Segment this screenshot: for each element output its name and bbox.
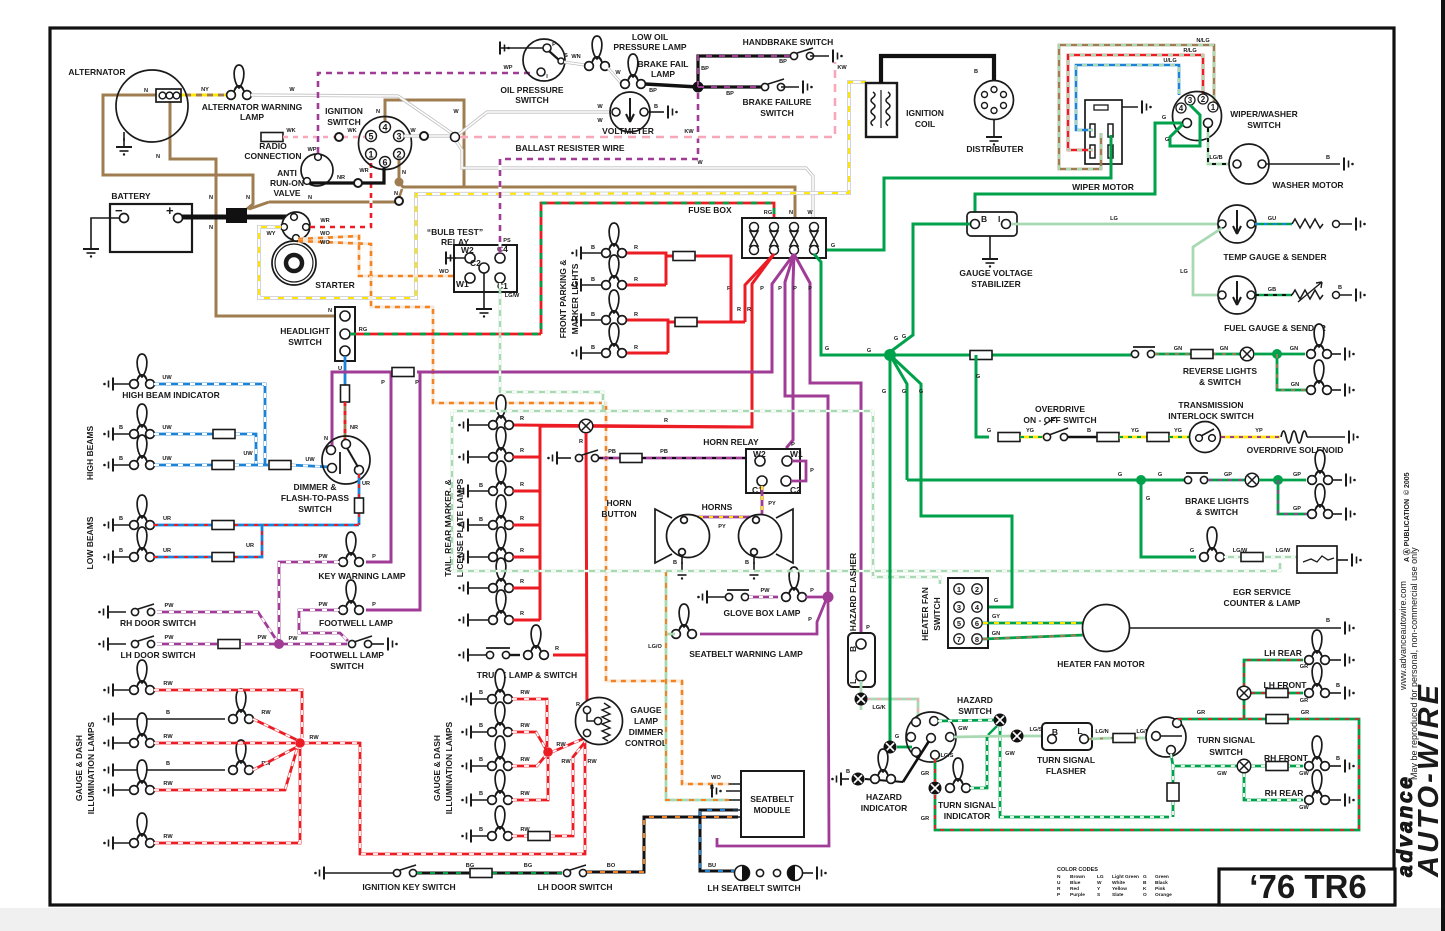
ground alternator [123,132,125,141]
turn signal switch [1146,717,1186,757]
svg-text:W: W [410,128,416,134]
lamp gauge illum right 2 [461,726,471,739]
svg-text:IGNITION: IGNITION [325,106,363,116]
svg-text:BALLAST RESISTER WIRE: BALLAST RESISTER WIRE [515,143,624,153]
svg-text:SWITCH: SWITCH [760,108,794,118]
svg-text:PW: PW [164,603,174,609]
svg-text:HANDBRAKE SWITCH: HANDBRAKE SWITCH [743,37,834,47]
bulb test relay [454,245,517,292]
LH door switch [98,638,108,651]
RH front lamp [1305,736,1330,770]
svg-text:N: N [324,436,328,442]
svg-text:LG/W: LG/W [1233,548,1248,554]
svg-text:RW: RW [556,742,566,748]
svg-text:R: R [634,312,638,318]
wire R front parking bus 1-2 [627,253,673,285]
wire B black lamp to BP junction [645,84,698,87]
wire GU temp to sender [1255,223,1292,226]
svg-text:2: 2 [975,585,979,594]
svg-text:UW: UW [243,451,253,457]
svg-text:6: 6 [382,158,387,168]
wire GW hazard to xf [938,720,994,721]
lamp tail 3 [458,461,524,498]
svg-text:TURN SIGNAL: TURN SIGNAL [1197,735,1255,745]
svg-text:W: W [1097,880,1102,886]
svg-text:HIGH BEAM INDICATOR: HIGH BEAM INDICATOR [122,390,219,400]
wire LG/K flasher to hazard switch [861,681,918,717]
wire LG/O [666,571,729,800]
svg-text:G: G [894,336,898,342]
lamp front parking 4 [571,347,581,360]
svg-text:VOLTMETER: VOLTMETER [602,126,654,136]
lamp tail 6 [458,558,524,595]
svg-text:G: G [1190,548,1194,554]
svg-text:LAMP: LAMP [240,112,264,122]
svg-text:RG: RG [764,210,772,216]
svg-text:ANTI: ANTI [277,168,297,178]
oil pressure switch [523,39,565,81]
wire RW left group net [154,690,585,854]
node G junction [884,349,896,361]
svg-text:UR: UR [163,516,171,522]
wire P purple fan P2 to glove box / seatbelt [785,254,828,594]
wire W ignition pin3 [404,134,450,137]
svg-text:INDICATOR: INDICATOR [861,803,907,813]
transmission interlock switch [1190,422,1221,453]
wire G green fuse to wiper motor [819,135,1111,250]
svg-text:B: B [1143,880,1147,886]
svg-text:R: R [555,646,559,652]
svg-text:WO: WO [711,775,721,781]
svg-text:R: R [664,418,668,424]
battery [110,204,192,252]
svg-text:PS: PS [503,238,511,244]
svg-text:K: K [1143,886,1147,892]
svg-text:KEY WARNING LAMP: KEY WARNING LAMP [318,571,406,581]
page right edge line [1441,0,1445,931]
svg-text:PW: PW [288,636,298,642]
wire RG red/green dashed headlight to fuse [350,203,774,334]
heater fan motor [1083,605,1130,652]
svg-text:W: W [807,210,813,216]
wire GR TS switch to LH lamps [1178,660,1303,719]
svg-text:INDICATOR: INDICATOR [944,811,990,821]
svg-text:R: R [520,579,524,585]
svg-text:P: P [372,602,376,608]
svg-text:STARTER: STARTER [315,280,355,290]
svg-text:RH REAR: RH REAR [1265,788,1304,798]
svg-text:WP: WP [307,147,316,153]
svg-text:3: 3 [1188,96,1193,105]
lamp gauge illum right 4 [461,794,471,807]
svg-text:B: B [166,761,170,767]
svg-text:RW: RW [520,791,530,797]
node P junction glove [806,596,828,599]
wiper motor plug [1085,100,1122,164]
svg-text:UW: UW [162,456,172,462]
LH seatbelt switch [735,866,827,881]
svg-text:BUTTON: BUTTON [601,509,636,519]
svg-text:B: B [119,516,123,522]
brake lights & switch [907,479,1184,482]
wire LG to fuel gauge [1193,228,1222,295]
svg-text:KW: KW [684,129,694,135]
ignition switch [359,117,412,170]
svg-text:G: G [987,428,991,434]
svg-text:UW: UW [162,375,172,381]
svg-text:P: P [791,442,795,448]
lamp seatbelt warning [672,604,697,638]
svg-text:CONTROL: CONTROL [625,738,667,748]
svg-text:RW: RW [587,759,597,765]
svg-text:W: W [697,160,703,166]
svg-text:TRUNK LAMP & SWITCH: TRUNK LAMP & SWITCH [477,670,577,680]
svg-text:B: B [591,312,595,318]
gauge voltage stabilizer [967,212,1017,236]
lamp alternator warning [227,65,252,99]
wire W warning lamp to fuse [251,95,813,218]
svg-text:MODULE: MODULE [754,805,791,815]
lamp front parking 3 [571,314,581,327]
wire N brown ignition to fuse box [399,155,795,222]
wire LG/S hazard to flasher [954,736,1045,737]
lamp brake fail [621,54,646,88]
crossed lamp on R line [579,419,593,433]
turn signal indicator [929,782,942,795]
svg-text:& SWITCH: & SWITCH [1199,377,1241,387]
svg-text:B: B [479,723,483,729]
handbrake switch [790,48,813,60]
wire LG stabilizer to temp gauge [1011,223,1218,226]
svg-text:P: P [760,286,764,292]
wire R/LG wiper loop [1068,55,1203,150]
svg-text:FRONT PARKING &: FRONT PARKING & [558,260,568,339]
svg-text:B: B [166,710,170,716]
overdrive circuit [976,355,989,437]
lamp tail 5 [458,527,524,564]
wire GN to second reverse lamp [1277,354,1307,390]
wire G wiper switch to stabilizer [975,123,1182,218]
svg-text:BATTERY: BATTERY [111,191,151,201]
svg-text:GW: GW [1217,771,1227,777]
wire BG black/green [417,872,562,875]
connector blob [226,208,247,223]
svg-text:PW: PW [164,635,174,641]
row3 lamp [103,737,113,750]
svg-text:“BULB TEST”: “BULB TEST” [427,227,483,237]
wire N brown stub connector [399,189,402,198]
title block '76 TR6 [1219,868,1395,905]
node BP junction [693,82,704,93]
lamp gauge illum right 3 [461,760,471,773]
svg-text:GLOVE BOX LAMP: GLOVE BOX LAMP [724,608,801,618]
wire GW TS switch to RH lamps [1171,754,1303,817]
RH rear lamp [1305,770,1330,804]
svg-text:PW: PW [760,588,770,594]
svg-text:B: B [654,104,658,110]
svg-text:White: White [1112,880,1125,886]
svg-text:ALTERNATOR WARNING: ALTERNATOR WARNING [202,102,303,112]
svg-text:1: 1 [368,150,373,160]
fuel gauge [1218,276,1256,314]
wire KW pink dashed ballast [460,62,835,137]
svg-text:PRESSURE LAMP: PRESSURE LAMP [613,42,687,52]
LH front lamp [1305,663,1330,697]
svg-text:TRANSMISSION: TRANSMISSION [1178,400,1243,410]
svg-text:UR: UR [163,548,171,554]
svg-text:W: W [597,104,603,110]
svg-text:BRAKE FAIL: BRAKE FAIL [638,59,689,69]
svg-text:C1: C1 [497,281,508,291]
svg-text:P: P [808,617,812,623]
svg-text:WR: WR [320,218,329,224]
svg-text:GN: GN [1290,346,1298,352]
svg-text:B: B [1326,618,1330,624]
wire BU black/blue [700,810,738,871]
svg-text:BP: BP [779,59,787,65]
wire BP to brake failure switch [698,85,762,88]
svg-text:B: B [1336,756,1340,762]
svg-text:LH DOOR SWITCH: LH DOOR SWITCH [537,882,612,892]
svg-text:B: B [479,757,483,763]
svg-text:LG/N: LG/N [1095,729,1108,735]
temp gauge [1218,205,1256,243]
svg-text:‘76 TR6: ‘76 TR6 [1249,868,1366,905]
svg-text:C2: C2 [470,258,481,268]
svg-text:LG/W: LG/W [1276,548,1291,554]
svg-text:RW: RW [163,781,173,787]
svg-text:LG/W: LG/W [505,293,520,299]
fuse box [742,218,826,258]
svg-text:Blue: Blue [1070,880,1081,886]
horn RH [739,509,794,563]
svg-text:SEATBELT: SEATBELT [750,794,794,804]
svg-text:KW: KW [837,65,847,71]
svg-text:YG: YG [1131,428,1139,434]
wire GR hazard to indicator to rear loop [935,719,1359,830]
svg-text:G: G [1118,472,1122,478]
wire N brown alternator loop [103,95,253,209]
wire GW indicator join [970,737,987,788]
svg-text:GW: GW [1299,805,1309,811]
svg-text:HEADLIGHT: HEADLIGHT [280,326,330,336]
svg-text:Orange: Orange [1155,892,1172,898]
wire G junction verticals [890,355,1012,741]
svg-text:P: P [415,380,419,386]
LH rear lamp [1305,630,1330,664]
right banner: advance AUTO-WIRE logo [1394,683,1445,878]
svg-text:2: 2 [396,150,401,160]
svg-text:SEATBELT WARNING LAMP: SEATBELT WARNING LAMP [689,649,803,659]
svg-text:May be reproduced for personal: May be reproduced for personal, non-comm… [1409,547,1419,780]
svg-text:COIL: COIL [915,119,935,129]
svg-text:NR: NR [337,175,345,181]
svg-text:RG: RG [359,327,367,333]
wire W between lamps [608,68,621,83]
svg-text:R: R [520,548,524,554]
lamp low beam 1 [103,519,113,532]
svg-text:WY: WY [266,231,275,237]
svg-text:G: G [1165,137,1169,143]
svg-text:ILLUMINATION LAMPS: ILLUMINATION LAMPS [444,721,454,814]
lamp tail 4 [458,495,524,532]
svg-text:UR: UR [246,543,254,549]
svg-text:HAZARD: HAZARD [866,792,902,802]
lamp front parking 2 [571,279,581,292]
svg-text:SWITCH: SWITCH [1209,747,1243,757]
svg-text:RW: RW [561,759,571,765]
svg-text:RW: RW [163,834,173,840]
svg-text:GR: GR [1301,710,1309,716]
svg-text:I: I [998,214,1000,224]
svg-text:G: G [994,598,998,604]
svg-text:N: N [402,170,406,176]
svg-text:6: 6 [975,619,979,628]
radio connection [261,133,283,142]
wire N brown bus to ignition [249,202,395,209]
svg-text:YG: YG [1174,428,1182,434]
color codes legend [1057,867,1172,898]
svg-text:1: 1 [1211,103,1216,112]
svg-text:Slate: Slate [1112,892,1124,898]
svg-text:N: N [394,191,398,197]
row1 lamp [103,684,113,697]
svg-text:HAZARD FLASHER: HAZARD FLASHER [848,553,858,631]
svg-text:1: 1 [957,585,961,594]
svg-text:Light Green: Light Green [1112,874,1139,880]
wire R tail feed line [512,425,746,427]
svg-text:N: N [144,88,148,94]
variable resistor fuel sender [1292,290,1323,299]
svg-text:FOOTWELL LAMP: FOOTWELL LAMP [319,618,393,628]
svg-text:LG: LG [1097,874,1104,880]
svg-text:WP: WP [503,65,512,71]
svg-text:GW: GW [1299,771,1309,777]
svg-text:SWITCH: SWITCH [958,706,992,716]
svg-text:R: R [579,439,583,445]
svg-text:MARKER LIGHTS: MARKER LIGHTS [570,263,580,334]
svg-text:B: B [974,69,978,75]
svg-text:GR: GR [921,771,929,777]
svg-text:LH REAR: LH REAR [1264,648,1302,658]
svg-text:WIPER MOTOR: WIPER MOTOR [1072,182,1134,192]
svg-text:LG/S: LG/S [1029,727,1042,733]
wire W gray loop outer [0,0,1,1]
svg-text:7: 7 [957,635,961,644]
svg-text:RW: RW [163,681,173,687]
svg-text:R: R [737,307,741,313]
wire WY yellow loop starter to coil [259,82,866,298]
svg-text:5: 5 [368,132,373,142]
wire BO black/orange [587,817,738,872]
headlight switch [335,307,355,361]
wire PB purple/black [599,457,753,460]
svg-text:Green: Green [1155,874,1169,880]
svg-text:LH FRONT: LH FRONT [1264,680,1308,690]
svg-text:FOOTWELL LAMP: FOOTWELL LAMP [310,650,384,660]
svg-text:N: N [246,195,250,201]
svg-text:B: B [119,425,123,431]
svg-text:COLOR CODES: COLOR CODES [1057,867,1098,873]
washer motor [1229,144,1269,184]
wire G green fuse to junction [814,254,886,355]
svg-text:advance: advance [1394,777,1417,877]
wire WP purple dashed valve to oil pressure switch [318,73,535,153]
svg-text:PY: PY [768,501,776,507]
lamp high beam 1 [103,428,113,441]
crossed ind on green [884,741,897,754]
svg-text:WR: WR [359,168,368,174]
svg-text:DIMMER: DIMMER [629,727,663,737]
power feed oil pressure [500,47,543,49]
svg-text:B: B [673,560,677,566]
svg-text:W1: W1 [790,449,803,459]
svg-text:HORN: HORN [606,498,631,508]
svg-text:FUEL GAUGE & SENDER: FUEL GAUGE & SENDER [1224,323,1326,333]
svg-text:N/LG: N/LG [1196,38,1209,44]
svg-text:LH SEATBELT SWITCH: LH SEATBELT SWITCH [707,883,800,893]
svg-text:G: G [919,389,923,395]
voltmeter [610,92,650,132]
seatbelt module [741,771,804,837]
svg-text:N: N [209,225,213,231]
lamp gauge illum right 1 [461,693,471,706]
svg-text:YP: YP [1255,428,1263,434]
dimmer & flash-to-pass switch [322,436,370,484]
svg-text:P: P [810,468,814,474]
row2 lamp with B lead [103,713,113,726]
svg-text:RW: RW [520,723,530,729]
svg-text:BP: BP [726,91,734,97]
svg-text:N: N [328,308,332,314]
lamp tail 7 [458,590,524,627]
svg-text:W: W [615,70,621,76]
svg-text:R/LG: R/LG [1183,48,1196,54]
lamp key warning [339,532,364,566]
svg-text:IGNITION KEY SWITCH: IGNITION KEY SWITCH [362,882,455,892]
svg-text:GR: GR [1300,698,1308,704]
svg-text:ON - OFF SWITCH: ON - OFF SWITCH [1023,415,1096,425]
svg-text:GW: GW [958,726,968,732]
svg-text:PB: PB [608,449,616,455]
svg-text:G: G [1146,496,1150,502]
wire G wiper switch internals [1170,105,1200,146]
lamp low beam 2 [103,551,113,564]
svg-text:G: G [902,334,906,340]
svg-text:www.advanceautowire.com: www.advanceautowire.com [1398,581,1408,691]
lamp gauge illum right 5 [461,830,471,843]
svg-text:N: N [376,109,380,115]
wire LG/N flasher to TS switch [1089,738,1150,739]
svg-text:OIL PRESSURE: OIL PRESSURE [500,85,563,95]
wire NR black valve to pin6 [310,168,384,183]
wire NY brown/yellow to warning lamp [180,94,228,97]
svg-text:GN: GN [992,631,1000,637]
svg-text:GU: GU [1268,216,1276,222]
svg-text:GR: GR [1300,664,1308,670]
svg-text:WO: WO [320,240,330,246]
svg-text:P: P [808,286,812,292]
svg-text:LG/B: LG/B [1209,155,1222,161]
svg-text:WIPER/WASHER: WIPER/WASHER [1230,109,1298,119]
svg-text:BP: BP [701,66,709,72]
glove box lamp [697,591,707,604]
svg-text:HORNS: HORNS [702,502,733,512]
svg-text:P: P [552,42,556,48]
wire G stabilizer to junction [890,224,970,352]
svg-text:SWITCH: SWITCH [288,337,322,347]
svg-text:HEATER FAN: HEATER FAN [920,587,930,641]
